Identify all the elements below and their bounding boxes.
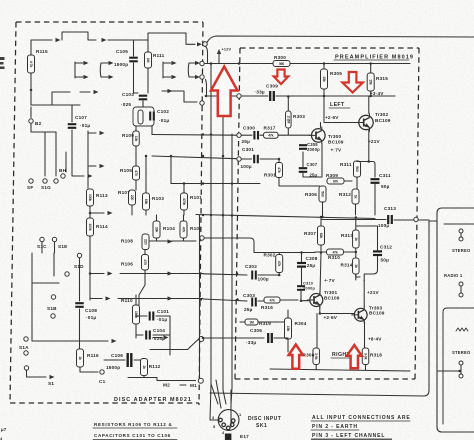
wire border zigzag a xyxy=(205,46,208,64)
wire y300 into preamp xyxy=(203,299,247,301)
wire R305 bottom xyxy=(323,89,325,96)
terminal sw2 xyxy=(459,237,463,241)
wire R303 xyxy=(287,97,289,135)
resistor R311 xyxy=(354,161,361,177)
resistor R318 xyxy=(362,348,369,365)
wire row1 staircase xyxy=(56,38,61,42)
wire R109 chain xyxy=(136,101,143,166)
wire y96 into preamp xyxy=(205,95,268,97)
right box inner line xyxy=(444,223,474,225)
wire y338 into preamp xyxy=(203,337,264,339)
resistor R116 xyxy=(77,349,84,367)
terminal border y300 xyxy=(200,298,203,301)
transistor Tr303 xyxy=(351,306,367,323)
switch contact pair d xyxy=(187,63,190,77)
wire R316 out xyxy=(258,300,298,301)
wire Tr303 leads xyxy=(363,280,365,348)
din connector SK1 xyxy=(218,410,239,431)
capacitor C302 xyxy=(252,271,256,280)
wire C103 bottom xyxy=(142,101,144,107)
wire Tr301 collector xyxy=(320,253,321,295)
resistor R317 xyxy=(264,132,279,138)
annotation red arrow down 1 xyxy=(274,70,289,85)
wire R306 xyxy=(323,181,353,217)
wire y63 rail right xyxy=(290,63,410,65)
wire C310 xyxy=(301,291,309,301)
wire C107 top xyxy=(71,105,73,122)
wire Tr302 leads xyxy=(324,96,369,162)
wire C105 top xyxy=(133,40,135,56)
wire y96 rail right xyxy=(276,95,395,97)
capacitor C104 xyxy=(146,331,150,340)
terminal border y339 xyxy=(199,337,204,342)
wire bottom rail preamp xyxy=(270,365,410,372)
wire R103 xyxy=(145,156,147,215)
terminal row2b xyxy=(200,75,204,79)
wire Tr301 leads xyxy=(317,305,354,348)
capacitor C309 xyxy=(270,91,274,101)
resistor R112 xyxy=(141,359,148,376)
resistor R302 xyxy=(276,255,283,273)
resistor R308 xyxy=(313,348,320,365)
terminal sw3 xyxy=(459,282,463,286)
wire y134 into preamp xyxy=(152,134,237,137)
resistor R301 xyxy=(276,163,283,178)
wire din leads xyxy=(210,384,218,420)
wire C306 out xyxy=(274,337,288,339)
wire y238 into preamp xyxy=(205,238,279,253)
wire R113-R114 xyxy=(89,206,91,218)
terminal SF xyxy=(29,179,33,183)
wire to S-row terminal xyxy=(150,340,198,350)
annotation red arrow up 4 xyxy=(347,345,362,368)
wire y183 into preamp xyxy=(171,183,260,185)
capacitor C107 xyxy=(68,124,77,128)
terminal border y275 xyxy=(199,272,202,275)
switch contact pair b xyxy=(99,63,102,77)
resistor R103 xyxy=(143,193,150,210)
capacitor C101 xyxy=(150,312,154,321)
screened lead wire xyxy=(210,221,437,396)
wire y63 into preamp xyxy=(205,63,273,65)
terminal S1A top xyxy=(24,337,28,341)
wire R106-R110 xyxy=(139,250,145,306)
wire row3 xyxy=(31,92,80,105)
capacitor C305 xyxy=(299,145,307,149)
arrow into border terminal xyxy=(197,42,202,46)
switch contact pair c xyxy=(162,62,164,78)
wire R111 bottom xyxy=(147,68,149,93)
coil symbol xyxy=(456,328,468,331)
resistor R300 xyxy=(273,61,290,67)
wire s-group xyxy=(32,242,59,300)
capacitor C307 xyxy=(299,168,308,172)
wire R315 bottom xyxy=(370,91,372,96)
wire C107 bottom xyxy=(72,130,84,176)
wire R115 top to row1 xyxy=(31,40,52,55)
right switch box border xyxy=(437,208,474,432)
wire R110 xyxy=(135,295,137,338)
resistor R310 xyxy=(327,249,344,255)
terminal BH xyxy=(61,174,65,178)
wire border zigzag b xyxy=(206,80,207,96)
junction dots on borders xyxy=(202,133,205,136)
right box inner box xyxy=(443,308,474,424)
terminal S1B xyxy=(51,295,55,299)
wire y135 links xyxy=(241,134,310,136)
resistor R107 xyxy=(129,190,136,205)
terminal S1A bot xyxy=(24,366,28,370)
resistor R313 xyxy=(353,230,360,248)
wire R319 xyxy=(240,321,285,323)
terminal sw6 xyxy=(459,374,463,378)
junction right xyxy=(458,370,461,373)
resistor R305 xyxy=(323,64,325,70)
resistor R315 xyxy=(370,64,372,74)
wire y275 into preamp xyxy=(203,274,247,275)
terminal s-low xyxy=(51,314,55,318)
terminal sw5 xyxy=(459,361,463,365)
wire C313 out xyxy=(322,219,429,222)
transistor Tr302 xyxy=(356,113,373,131)
resistor R104 xyxy=(153,221,160,238)
wire R107 bottom xyxy=(131,205,133,215)
resistor R110 xyxy=(133,305,140,324)
wire bus x232 xyxy=(231,134,232,404)
wire bus x211 xyxy=(211,64,218,404)
page edge mark top xyxy=(0,57,5,60)
terminal border y338 xyxy=(202,337,205,340)
resistor R111 xyxy=(145,52,152,68)
resistor R314 xyxy=(353,258,360,274)
wire R115 bottom xyxy=(30,73,32,105)
capacitor C303 xyxy=(252,298,256,307)
resistor R101 xyxy=(181,193,188,210)
wire y341 xyxy=(32,300,108,341)
wire y215 rail xyxy=(196,215,375,219)
capacitor C301 xyxy=(254,155,258,164)
wire y252 link xyxy=(279,253,315,255)
capacitor C312 xyxy=(373,251,382,255)
wire R301 xyxy=(279,159,320,186)
wire C104 out arrow xyxy=(153,337,162,339)
wire C307 xyxy=(303,144,322,178)
wire R111 top xyxy=(147,40,149,52)
terminal row3 xyxy=(200,101,204,105)
wire bh group xyxy=(31,132,66,176)
capacitor C300 xyxy=(254,131,258,140)
terminal S1D xyxy=(77,253,81,257)
terminal S1G xyxy=(43,179,47,183)
terminal border y238 xyxy=(200,236,204,240)
disc adapter box border (dashed) xyxy=(16,21,203,23)
annotation red arrow up 3 xyxy=(289,345,303,369)
wire R313 xyxy=(356,218,378,231)
wire C302 out xyxy=(258,274,279,276)
wire x152 links xyxy=(151,126,153,135)
terminal sw1 xyxy=(459,229,463,233)
wire R102 xyxy=(183,215,185,241)
resistor R319 xyxy=(245,319,258,325)
capacitor C306 xyxy=(268,333,272,343)
resistor R114 xyxy=(87,218,94,236)
resistor R108 xyxy=(142,234,149,250)
resistor R312 xyxy=(352,189,359,204)
wire right links xyxy=(437,233,461,374)
resistor R106 xyxy=(142,255,149,271)
wire R104 xyxy=(156,215,158,241)
wire C108 bottom xyxy=(79,309,81,349)
terminal row1 xyxy=(203,42,207,46)
wire M1 exit xyxy=(180,384,186,386)
wire +12V rail xyxy=(207,36,474,42)
transistor Tr301 xyxy=(307,292,323,309)
wire y240 link xyxy=(150,240,196,242)
wire C308 xyxy=(301,253,303,286)
wire R310-R314 xyxy=(315,248,356,280)
annotation big red arrow up xyxy=(211,67,238,117)
capacitor C313 xyxy=(388,215,392,224)
terminal M1 xyxy=(198,378,203,383)
terminal S1E xyxy=(52,237,56,241)
wire R101 xyxy=(183,184,185,216)
wire bus x196 xyxy=(199,215,201,378)
resistor R303 xyxy=(286,111,292,128)
terminal row2a xyxy=(200,61,204,65)
terminal s-mid xyxy=(65,272,69,276)
wire x88 vertical xyxy=(87,131,89,188)
wire C312 xyxy=(356,226,378,281)
terminal on border xyxy=(203,42,207,46)
wire R105-R107 xyxy=(132,180,136,190)
wire R112 bottom / M2 wire xyxy=(128,376,196,381)
capacitor C310 xyxy=(297,286,305,290)
wire y159 xyxy=(241,158,279,160)
wire C106 xyxy=(104,359,141,361)
node +12V arrow xyxy=(218,53,220,64)
resistor R304 xyxy=(285,318,292,339)
capacitor C103 xyxy=(139,96,148,100)
transistor Tr300 xyxy=(309,127,326,145)
terminal B2 xyxy=(29,119,33,123)
resistor R113 xyxy=(87,189,94,206)
switch contact pair a xyxy=(74,62,76,78)
resistor R115 xyxy=(28,55,35,73)
wire arrows mid exits xyxy=(168,239,173,243)
resistor R307 xyxy=(318,226,325,245)
terminal C1 xyxy=(100,370,104,374)
capacitor C311 xyxy=(371,179,380,183)
capacitor C102 block xyxy=(133,107,154,126)
wire C101/C104 links xyxy=(136,316,170,355)
resistor R316 xyxy=(264,297,280,303)
wire R307 xyxy=(320,217,322,253)
annotation red arrow down 2 xyxy=(342,72,363,93)
wire C105 bottom xyxy=(134,63,139,93)
capacitor C108 xyxy=(79,258,81,301)
wire bus x223 xyxy=(223,96,226,404)
wire R304 xyxy=(287,310,289,352)
wire x171 link xyxy=(170,156,172,184)
preamplifier box border (dashed) xyxy=(240,47,419,49)
wire S1 exit xyxy=(27,370,47,377)
terminal sw4 xyxy=(459,293,463,297)
capacitor C105 xyxy=(129,58,138,62)
terminal b3 xyxy=(54,179,58,183)
wire R311 loop xyxy=(357,162,375,178)
resistor R102 xyxy=(180,221,187,238)
wire to B2 xyxy=(30,107,32,132)
resistor R109 xyxy=(133,131,140,146)
resistor R105 xyxy=(133,166,140,180)
wire C311 bottom xyxy=(374,184,376,215)
wire y156 into preamp xyxy=(152,156,237,159)
resistor R306 xyxy=(319,186,326,202)
wire below R114 xyxy=(89,236,91,300)
terminal S1A mid xyxy=(24,351,28,355)
capacitor C106 xyxy=(128,353,132,367)
din shaft xyxy=(225,434,232,440)
terminal S1C xyxy=(40,237,44,241)
resistor R309 xyxy=(327,178,344,184)
wire R302 xyxy=(278,273,280,276)
wire R311-R312 xyxy=(356,177,358,215)
capacitor C308 xyxy=(297,263,306,267)
wire R116 bottom xyxy=(80,367,98,372)
